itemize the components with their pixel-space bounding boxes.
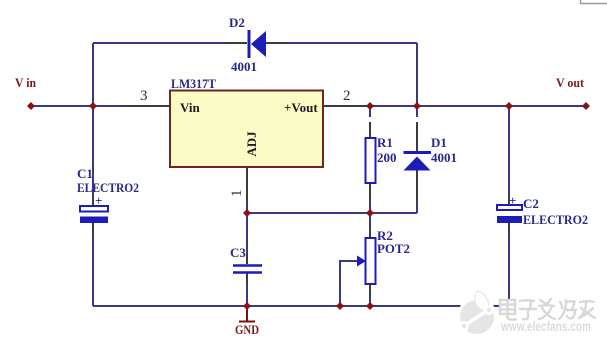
svg-text:4001: 4001 [231, 59, 257, 74]
wire: C2 bottom pin stub [508, 223, 510, 234]
pin number 3 [140, 88, 148, 104]
svg-text:+: + [509, 193, 516, 208]
R1 value 200 [377, 150, 397, 165]
wire: C1 bottom to bottom rail [92, 234, 94, 306]
wire: C1 bottom pin stub [92, 223, 94, 234]
wire: D1 top pin [416, 122, 418, 152]
wire: top loop left segment to D2 [93, 42, 227, 44]
wire: main output rail [370, 105, 586, 107]
watermark url www.elecfans.com [500, 319, 591, 334]
diode D1 [404, 153, 432, 171]
svg-text:C3: C3 [230, 245, 246, 260]
svg-text:POT2: POT2 [377, 241, 410, 256]
svg-text:GND: GND [235, 322, 259, 337]
resistor R1 [366, 138, 376, 183]
node V in terminal [27, 102, 35, 110]
R2 wiper arrow [357, 256, 366, 267]
pin number 2 [343, 88, 351, 104]
wire: C2 bottom to ground rail [508, 234, 510, 306]
wire: R2 top pin [369, 228, 371, 238]
GND label [235, 322, 259, 337]
svg-text:R1: R1 [377, 135, 393, 150]
C1 designator [77, 166, 93, 181]
wire: R1 bottom pin [369, 183, 371, 202]
svg-text:www.elecfans.com: www.elecfans.com [500, 319, 591, 334]
wire: R1 top pin [369, 122, 371, 138]
capacitor C3 [233, 266, 262, 273]
wire: D1 top stub from output rail [416, 106, 418, 117]
svg-text:V out: V out [556, 75, 585, 90]
net label V in [15, 75, 37, 90]
R2 designator [377, 228, 393, 243]
R1 designator [377, 135, 393, 150]
svg-text:ADJ: ADJ [244, 131, 259, 157]
svg-text:2: 2 [343, 88, 351, 104]
svg-text:ELECTRO2: ELECTRO2 [523, 212, 588, 227]
svg-text:1: 1 [229, 190, 245, 198]
node junction ground rail at GND [243, 302, 251, 310]
pin number 1 (rotated) [229, 190, 245, 198]
svg-text:4001: 4001 [431, 150, 457, 165]
wire: C2 top pin stub [508, 196, 510, 205]
C2 polarity + [509, 193, 516, 208]
svg-text:ELECTRO2: ELECTRO2 [77, 180, 139, 195]
wire: R1 bottom to ADJ wire [369, 202, 371, 213]
wire: ADJ horizontal wire [247, 212, 417, 214]
watermark logo circle [457, 291, 497, 337]
op-amp U1 LM317T body [170, 91, 323, 168]
wire: D1 bottom to ADJ wire corner [416, 202, 418, 213]
diode D2 [249, 30, 266, 58]
U1 pin name ADJ (rotated) [244, 131, 259, 157]
svg-text:C2: C2 [523, 196, 539, 211]
C1 polarity + [95, 193, 102, 208]
node junction at input rail [89, 102, 97, 110]
wire: ADJ junction down to C3 [246, 213, 248, 254]
node junction output rail at R1 [366, 102, 374, 110]
svg-text:+Vout: +Vout [284, 100, 318, 115]
wire: bottom ground rail [93, 305, 509, 307]
D1 value 4001 [431, 150, 457, 165]
wire: C3 bottom pin stub [246, 273, 248, 284]
svg-text:D1: D1 [431, 135, 447, 150]
svg-text:+: + [95, 193, 102, 208]
wire: right vertical of top loop down to output rail [416, 43, 418, 106]
wire: C3 top pin stub [246, 254, 248, 264]
net label V out [556, 75, 585, 90]
capacitor C1 [80, 206, 108, 223]
C2 designator [523, 196, 539, 211]
potentiometer R2 [366, 238, 376, 284]
D1 designator [431, 135, 447, 150]
wire: top loop right segment from D2 to corner [287, 42, 417, 44]
wire: D2 right pin stub [266, 42, 287, 44]
wire: R2 bottom pin [369, 284, 371, 295]
svg-text:D2: D2 [229, 15, 245, 30]
wire: R2 wiper to ground rail [340, 261, 357, 306]
capacitor C2 [497, 205, 522, 223]
wire: D1 bottom pin [416, 170, 418, 202]
wire: C3 bottom to ground rail [246, 284, 248, 306]
C1 value ELECTRO2 [77, 180, 139, 195]
R2 value POT2 [377, 241, 410, 256]
wire: C1 top pin stub [92, 196, 94, 206]
pin 3 line of U1 [124, 105, 170, 107]
node junction ground rail at R2 [366, 302, 374, 310]
wire: R1 top stub from output rail [369, 106, 371, 117]
node junction ground rail at wiper [336, 302, 344, 310]
node junction output rail at D1 [413, 102, 421, 110]
U1 designator LM317T [171, 76, 216, 91]
wire: D2 left pin stub [227, 42, 247, 44]
node junction output rail at C2 [505, 102, 513, 110]
svg-text:Vin: Vin [180, 100, 201, 115]
U1 pin name Vin [180, 100, 201, 115]
pin 2 line of U1 [323, 105, 370, 107]
svg-text:V in: V in [15, 75, 37, 90]
wire: R2 bottom to ground rail [369, 295, 371, 306]
C3 designator [230, 245, 246, 260]
svg-text:3: 3 [140, 88, 148, 104]
wire: main input rail V in to junction [31, 105, 124, 107]
node V out terminal [582, 102, 590, 110]
watermark chinese characters (stylized) [500, 299, 595, 320]
node junction ADJ wire at C3 [243, 209, 251, 217]
svg-text:LM317T: LM317T [171, 76, 216, 91]
wire: left vertical from top loop corner down through junction to C1 [92, 43, 94, 196]
D2 designator [229, 15, 245, 30]
ground GND symbol [239, 306, 255, 322]
C2 value ELECTRO2 [523, 212, 588, 227]
wire: C2 branch from output rail [508, 106, 510, 196]
D2 value 4001 [231, 59, 257, 74]
wire: junction down to R2 top pin [369, 213, 371, 228]
node junction ADJ wire at R1/R2 [366, 209, 374, 217]
pin ADJ (pin 1) line of U1 [246, 167, 248, 200]
U1 pin name +Vout [284, 100, 318, 115]
wire: ADJ pin to junction [246, 200, 248, 213]
svg-text:200: 200 [377, 150, 397, 165]
border fragment top-right [581, 0, 607, 4]
svg-text:C1: C1 [77, 166, 93, 181]
